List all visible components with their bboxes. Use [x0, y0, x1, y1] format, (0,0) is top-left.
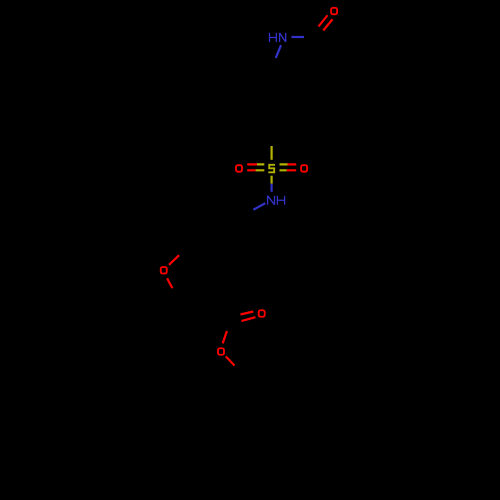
invisible carbon skeleton: furan ring carbons: [177, 262, 218, 307]
sulfonamide NH atom label: H glyph: [277, 196, 284, 205]
sulfonyl O left atom label: [236, 165, 242, 172]
S=O right double bond, red halves: [287, 164, 296, 170]
aryl-S bond, yellow half: [271, 146, 273, 160]
amide C=O double bond, red half (line 2): [323, 19, 332, 30]
ester O-CH2 bond, black half: [235, 366, 243, 374]
amide HN atom label: H glyph: [270, 33, 277, 42]
sulfonamide N-aryl bond, blue half: [253, 203, 265, 210]
furan O-C7a bond, black half: [179, 246, 189, 256]
amide N-C(=O) bond, blue half: [292, 36, 305, 38]
furan O-C7a bond, red half: [169, 255, 179, 265]
invisible bond: ester carbonyl C to furan C3: [210, 307, 231, 319]
amide N-aryl bond, black half: [270, 58, 275, 71]
aryl-S bond, black half: [271, 135, 273, 147]
amide N-C(=O) bond, black half: [304, 36, 317, 38]
ester O-CH2 bond, red half: [226, 356, 235, 365]
amide C=O double bond, red half (line 1): [319, 15, 328, 26]
ester C=O double bond, red half (line 1): [240, 312, 253, 315]
sulfonyl O right atom label: [301, 165, 307, 172]
O atom ring glyphs drawn as rounded-rect rings (RDKit blocky O): [161, 8, 337, 355]
amide O atom label: [331, 8, 337, 15]
invisible carbon skeleton: acetamidophenyl benzene ring: [243, 71, 299, 135]
sulfonamide NH atom label: N glyph: [268, 196, 275, 205]
amide HN atom label: N glyph: [280, 33, 286, 42]
S=O left double bond, red halves: [247, 164, 257, 170]
S-N bond, blue half: [271, 184, 273, 192]
ester O atom label: [218, 348, 224, 355]
invisible carbon skeleton: benzofuran benzo ring: [189, 196, 241, 262]
ester carbonyl O atom label: [259, 310, 265, 317]
sulfur S atom label (blocky S glyph): [268, 165, 275, 173]
sulfonamide N-aryl bond, black half: [241, 210, 253, 217]
invisible carbon skeleton: benzyl CH2 and phenyl: [226, 373, 276, 480]
furan O-C2 bond, black half: [172, 288, 177, 299]
S-N bond, yellow half: [271, 176, 273, 184]
S=O right double bond, yellow halves: [280, 164, 288, 170]
S=O left double bond, yellow halves: [256, 164, 265, 170]
amide N-aryl bond, blue half: [276, 45, 281, 58]
ester C=O double bond, black halves: [228, 315, 241, 325]
furan O atom label: [161, 267, 167, 274]
invisible carbon skeleton: acetamide methyl bond: [317, 37, 328, 68]
ester C=O double bond, red half (line 2): [241, 317, 255, 321]
ester C-O single bond, black half: [227, 319, 231, 331]
furan O-C2 bond, red half: [167, 278, 172, 288]
ester C-O single bond, red half: [223, 331, 227, 343]
